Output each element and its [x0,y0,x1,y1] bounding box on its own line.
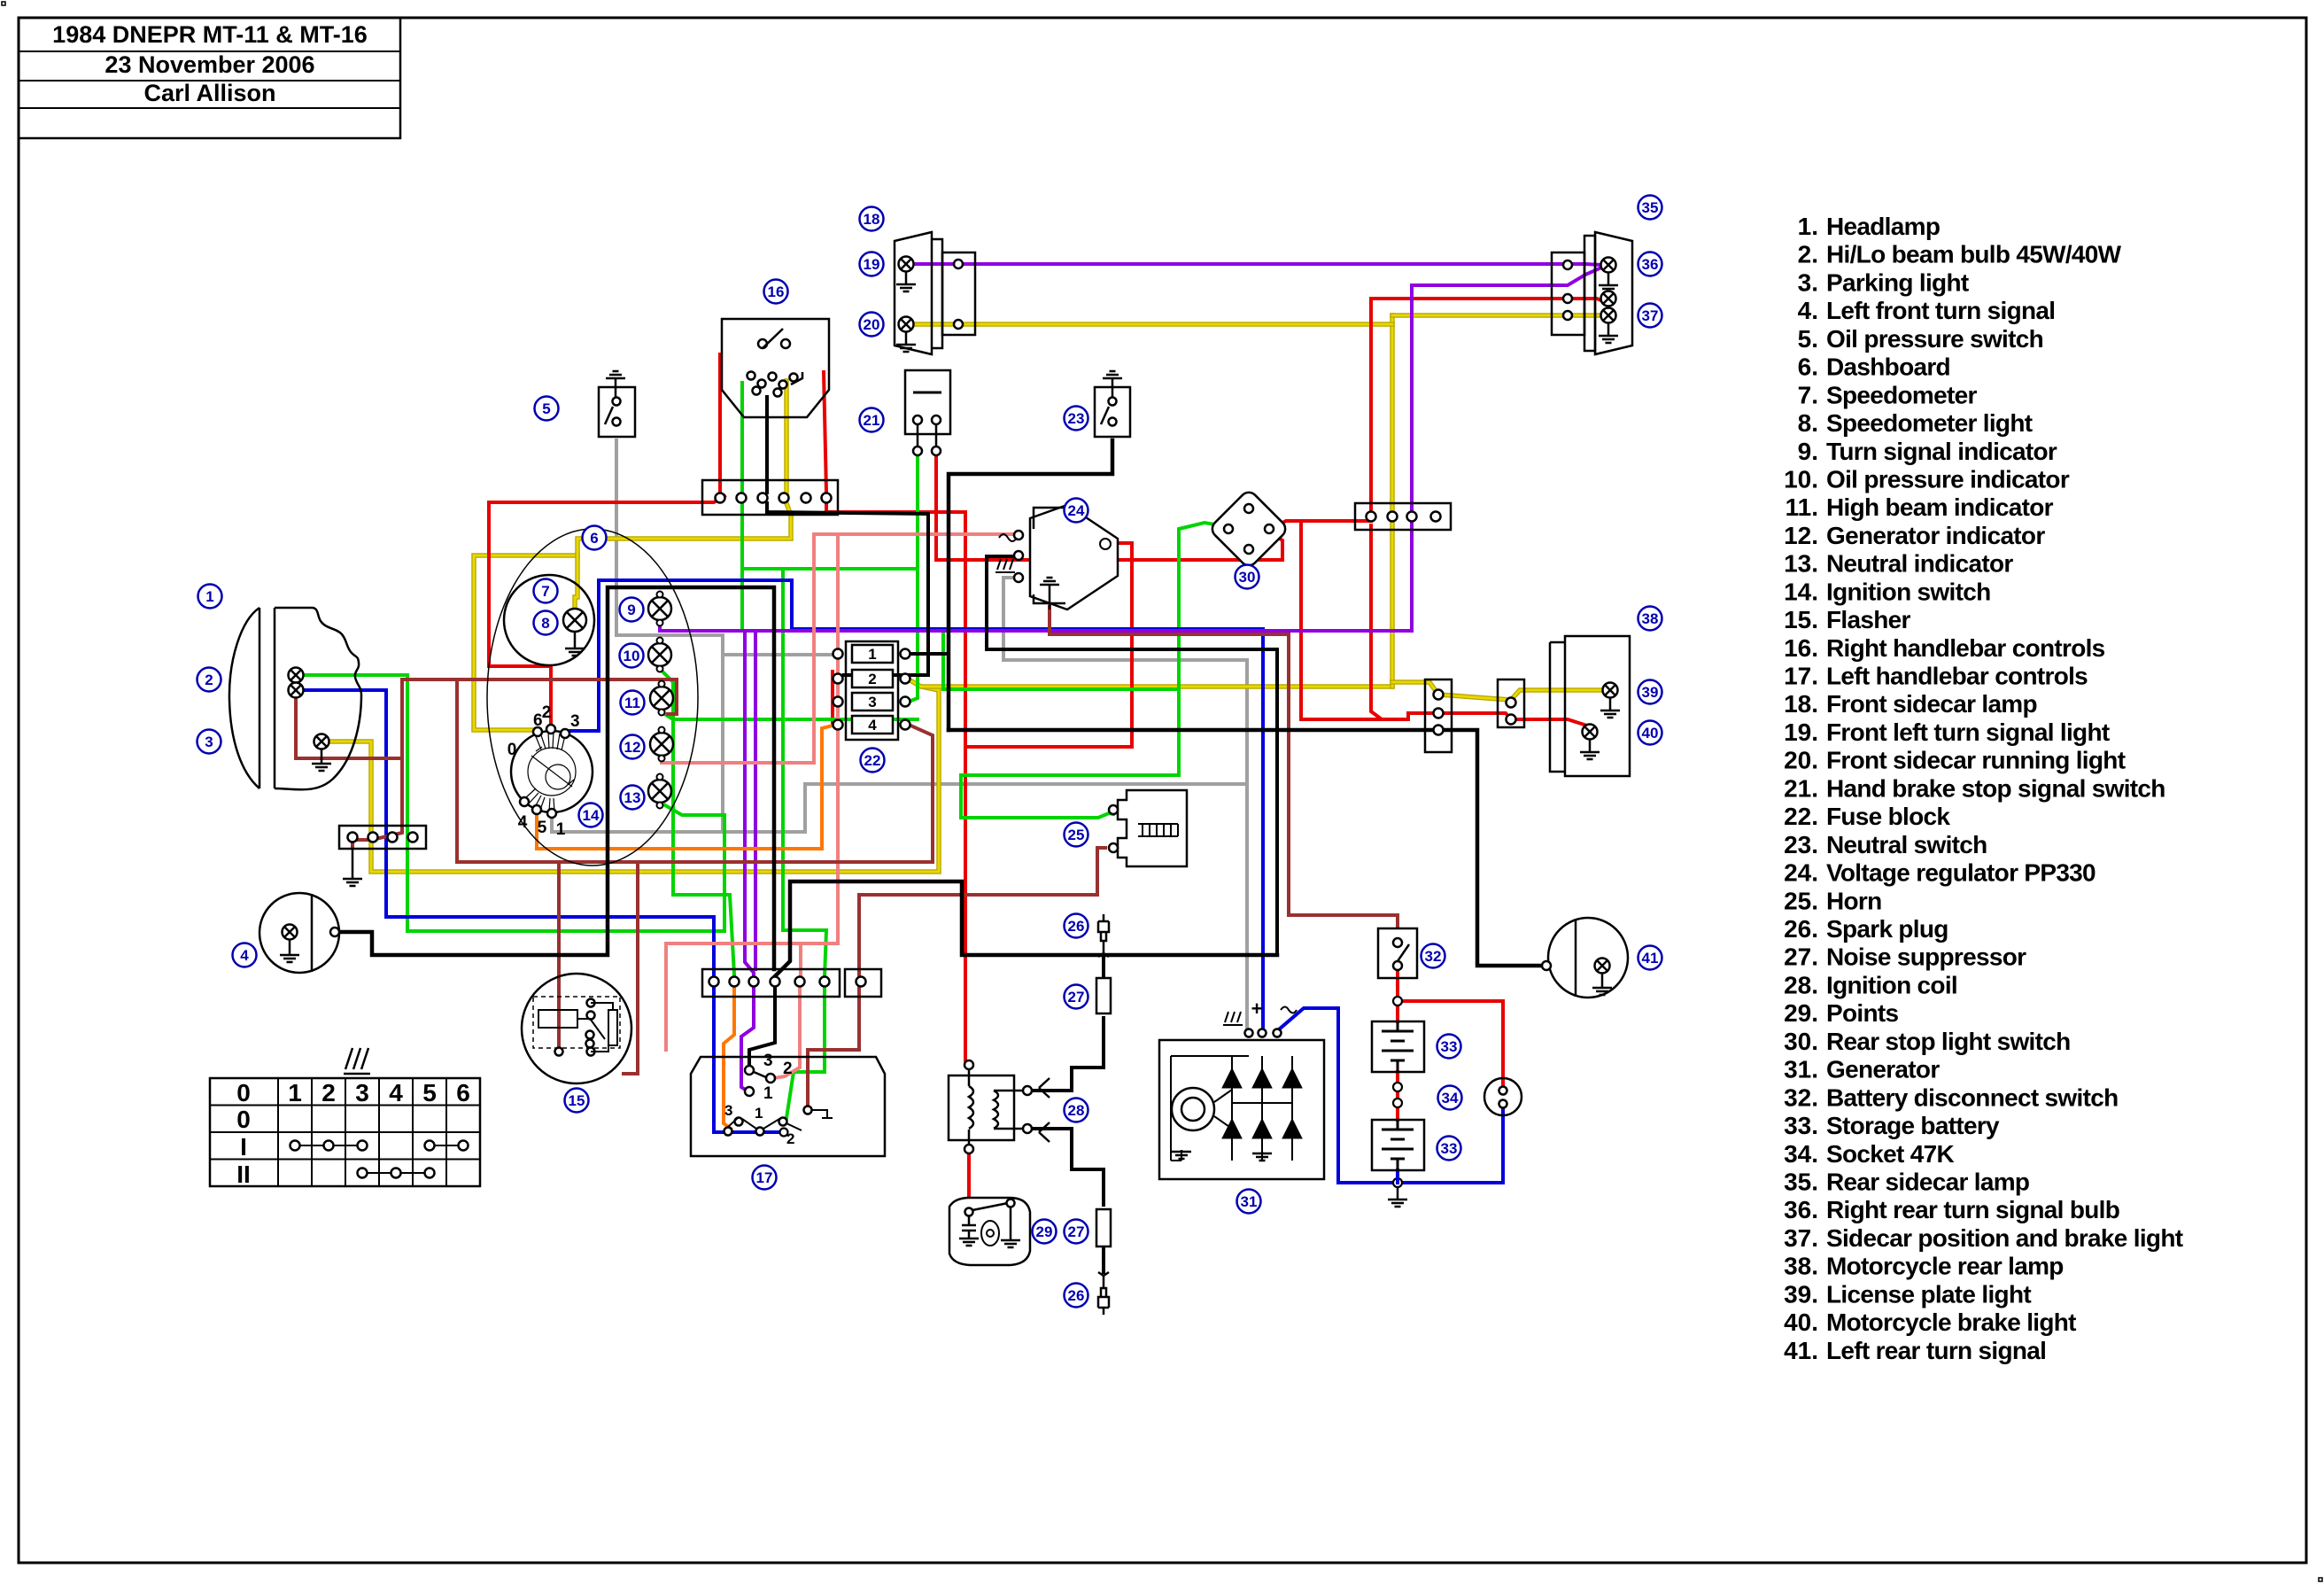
svg-text:0: 0 [236,1106,251,1133]
neutral indicator 13 [648,774,671,809]
svg-text:Noise suppressor: Noise suppressor [1826,943,2026,971]
wire green: 16 to stop switch 30 [742,383,1179,689]
node battery mid1 [1393,1083,1402,1091]
node label 13 [621,786,645,810]
socket 47K 34 [1484,1078,1522,1115]
wire black: suppressor to spark plug upper [1102,957,1105,978]
node label 9 [620,598,644,622]
svg-text:2: 2 [205,672,213,688]
terminal strip (below 16) [702,480,838,515]
wire maroon: to lamp 11 [402,679,677,714]
left front turn signal 4 [260,893,339,973]
flasher 15 [522,974,631,1083]
wire yellow: riser to front/rear sidecar lamps [1390,315,1395,687]
svg-text:19: 19 [864,256,880,273]
speedometer 7 [504,575,594,665]
svg-text:23.: 23. [1784,831,1818,858]
node label 7 [534,579,558,603]
svg-text:4: 4 [868,717,877,734]
ground (parking light) [312,758,331,771]
wire yellow: front sidecar running light 20 [914,322,1392,327]
svg-text:25.: 25. [1784,887,1818,914]
node label 26 lower [1065,1284,1088,1308]
sidecar position and brake light 37 [1601,291,1616,307]
svg-text:12: 12 [624,739,641,756]
svg-text:Oil pressure switch: Oil pressure switch [1826,325,2043,353]
ground (regulator) [1049,586,1051,610]
ground (points capacitor) [959,1237,979,1246]
svg-text:3: 3 [724,1102,732,1119]
svg-text:15: 15 [569,1092,585,1109]
connector (rear lamp 3-hole) [1425,679,1452,752]
svg-text:26: 26 [1068,918,1085,935]
wire yellow: 16 internal [784,381,789,493]
node label 38 [1638,607,1662,631]
wire maroon: horn to strip to 17 [859,848,1105,977]
wire blue: battery to node [1396,1170,1399,1183]
svg-text:Front sidecar running light: Front sidecar running light [1826,747,2126,774]
generator 31 [1159,1040,1324,1179]
svg-text:30: 30 [1239,569,1256,586]
svg-text:1: 1 [763,1084,773,1103]
svg-text:22.: 22. [1784,803,1818,830]
node label 33 [1437,1035,1461,1059]
right rear turn signal bulb 36 [1601,258,1616,273]
svg-text:28: 28 [1068,1102,1085,1119]
node label 26 [1065,914,1088,938]
svg-text:39: 39 [1642,684,1659,701]
svg-text:35: 35 [1642,199,1659,216]
wire maroon: regulator to battery switch 32 [1050,607,1398,926]
svg-text:Generator: Generator [1826,1056,1940,1083]
node label 23 [1065,407,1088,431]
wire maroon: flasher feed [624,862,638,1074]
svg-text:24.: 24. [1784,859,1818,887]
svg-text:27.: 27. [1784,943,1818,971]
wire blue: ignition t3 to generator + [568,580,1263,1031]
svg-text:Horn: Horn [1826,887,1882,914]
node label 4 [233,943,257,967]
svg-text:23: 23 [1068,410,1085,427]
node label 8 [534,611,558,635]
svg-text:4.: 4. [1798,297,1818,324]
svg-text:0: 0 [236,1079,251,1106]
svg-text:License plate light: License plate light [1826,1280,2031,1308]
svg-text:Right handlebar controls: Right handlebar controls [1826,634,2105,662]
svg-text:Storage battery: Storage battery [1826,1112,2000,1139]
svg-text:1: 1 [288,1079,302,1106]
node label 39 [1638,680,1662,704]
svg-text:Motorcycle brake light: Motorcycle brake light [1826,1308,2076,1336]
speedometer light 8 [563,609,586,632]
svg-text:18.: 18. [1784,690,1818,718]
front sidecar lamp 18 [895,232,942,354]
svg-text:30.: 30. [1784,1028,1818,1055]
node label 40 [1638,721,1662,745]
node label 3 [198,730,221,754]
node label 19 [860,252,884,276]
svg-text:3: 3 [205,734,213,750]
svg-text:Turn signal indicator: Turn signal indicator [1826,438,2057,465]
node label 34 [1438,1086,1462,1110]
wire yellow: parking light trunk [329,687,939,872]
hand brake stop signal switch 21 [905,370,950,434]
front left turn signal light 19 [899,257,914,272]
svg-text:34: 34 [1442,1090,1459,1106]
svg-text:14: 14 [583,807,600,824]
svg-text:31.: 31. [1784,1056,1818,1083]
wire gray: oil switch 5 trunk [616,440,723,635]
svg-text:39.: 39. [1784,1280,1818,1308]
ignition switch 14 [511,731,593,812]
node label 16 [764,280,788,304]
wire green: hand brake 21 to fuse 3 [909,455,918,702]
wire black: lower suppressor to plug [1102,1246,1105,1272]
svg-text:Right rear turn signal bulb: Right rear turn signal bulb [1826,1196,2119,1223]
svg-text:37: 37 [1642,307,1659,324]
node label 27 [1065,985,1088,1009]
node label 35 [1638,196,1662,220]
node label 12 [621,735,645,759]
ground (generator left) [1181,1150,1182,1161]
svg-text:32: 32 [1425,948,1442,965]
node label 24 [1065,499,1088,523]
node label 36 [1638,252,1662,276]
svg-text:26: 26 [1068,1287,1085,1304]
svg-text:18: 18 [864,211,880,228]
svg-text:20.: 20. [1784,747,1818,774]
node label 17 [753,1166,777,1190]
motorcycle brake light 40 [1583,725,1598,740]
wire black: turn signal 4 loop / dashboard frame [339,587,774,969]
wire black: 16 to fuse 2 [765,397,769,493]
svg-text:Hand brake stop signal switch: Hand brake stop signal switch [1826,774,2165,802]
wire green: lamp 10 to strip hole2 [660,669,734,974]
svg-text:32.: 32. [1784,1083,1818,1111]
node label 6 [583,526,607,550]
oil pressure switch 5 [599,387,635,437]
node label 11 [621,691,645,715]
wire green: below strip to horn button [786,986,825,1118]
svg-text:8.: 8. [1798,409,1818,437]
svg-text:Neutral switch: Neutral switch [1826,831,1987,858]
node label 1 [198,585,222,609]
svg-text:13: 13 [624,789,641,806]
svg-text:29: 29 [1036,1223,1053,1240]
wire red: 16 right to ignition coil [824,372,826,493]
wire orange: ignition t5 trunk [537,725,836,849]
svg-text:Front sidecar lamp: Front sidecar lamp [1826,690,2037,718]
svg-text:27: 27 [1068,989,1085,1006]
svg-text:33.: 33. [1784,1112,1818,1139]
wire yellow: to license plate light 39 [1392,682,1603,700]
wire black: hole4 to 17 [749,986,775,1066]
wire red: regulator to coil feed [967,543,1132,747]
svg-text:1: 1 [556,820,566,839]
wire maroon: flasher coil feed [557,862,561,1047]
node 17 terminal (blue) [780,1129,788,1137]
left handlebar controls 17 [691,1057,885,1156]
terminal strip (center) [702,969,840,997]
svg-text:10.: 10. [1784,465,1818,493]
ground (speedo light) [565,643,585,656]
svg-text:1984 DNEPR MT-11 & MT-16: 1984 DNEPR MT-11 & MT-16 [52,21,368,48]
svg-text:Rear sidecar lamp: Rear sidecar lamp [1826,1168,2029,1195]
wire green: 16 branch to hole6 riser [742,567,918,571]
svg-text:16: 16 [768,283,785,300]
svg-text:2: 2 [542,703,552,722]
dashboard 6 [487,529,698,866]
ground (below strip) [343,849,362,886]
svg-text:20: 20 [864,316,880,333]
horn 25 [1118,790,1187,866]
license plate light 39 [1603,683,1618,698]
wire pink: flasher to strip hole5 [666,943,838,1050]
left rear turn signal 41 [1548,918,1628,998]
headlamp 1 [260,608,275,788]
wire red: rear turn 37 feed [1371,299,1603,301]
svg-text:27: 27 [1068,1223,1085,1240]
terminal strip (right top 4-hole) [1355,503,1451,530]
node battery top [1393,997,1402,1006]
wire black: fuse1 to 23 trunk [909,652,949,656]
wire gray: branch to fuse 1 [723,653,836,656]
svg-text:19.: 19. [1784,718,1818,746]
svg-text:9: 9 [627,602,635,618]
rear sidecar lamp 35 [1595,232,1632,354]
node label 25 [1065,823,1088,847]
svg-text:Carl Allison: Carl Allison [143,80,275,106]
svg-text:3.: 3. [1798,268,1818,296]
svg-text:2: 2 [321,1079,336,1106]
node battery bottom [1393,1178,1402,1187]
wire yellow: 16 strip to speedo bulb 8 [575,503,791,610]
svg-text:14.: 14. [1784,578,1818,605]
terminal strip (center small) [845,969,881,997]
node label 27 lower [1065,1220,1088,1244]
node label 28 [1065,1099,1088,1122]
node label 33 lower [1437,1137,1461,1161]
motorcycle rear lamp 38 [1565,636,1630,776]
svg-text:Left handlebar controls: Left handlebar controls [1826,663,2088,690]
svg-text:31: 31 [1241,1193,1258,1210]
noise suppressor 27 upper [1096,978,1111,1013]
svg-text:Headlamp: Headlamp [1826,213,1940,240]
svg-text:II: II [236,1161,251,1188]
node label 37 [1638,304,1662,328]
svg-text:Left front turn signal: Left front turn signal [1826,297,2055,324]
node label 5 [535,397,559,421]
svg-text:6.: 6. [1798,353,1818,381]
svg-text:23 November 2006: 23 November 2006 [105,51,314,78]
svg-text:Motorcycle rear lamp: Motorcycle rear lamp [1826,1253,2064,1280]
svg-text:2: 2 [783,1060,793,1078]
noise suppressor 27 lower [1096,1209,1111,1246]
wire red: rear riser to brake light 40 [1371,525,1387,719]
hi/lo beam bulb 2 [289,668,304,683]
oil pressure indicator 10 [648,638,671,672]
wire black: regulator t2 riser [987,556,1277,955]
wire yellow: fuse 2 to rear [907,679,1392,687]
wire yellow: sidecar brake light 37 [1392,313,1601,318]
ground (generator bridge) [1261,1138,1263,1152]
node label 30 [1236,565,1259,589]
node label 21 [860,408,884,432]
svg-text:16.: 16. [1784,634,1818,662]
svg-text:21.: 21. [1784,774,1818,802]
rear stop light switch 30 [1209,489,1290,570]
svg-text:12.: 12. [1784,522,1818,549]
node label 32 [1422,944,1445,968]
svg-text:13.: 13. [1784,550,1818,578]
node label 2 [198,668,221,692]
node label 31 [1237,1190,1261,1214]
svg-text:Fuse block: Fuse block [1826,803,1950,830]
svg-text:Points: Points [1826,999,1898,1027]
switch position table [210,1078,480,1186]
svg-text:5: 5 [422,1079,437,1106]
wire black: rear trunk to lamp 41 [949,730,1542,966]
ground (points lever) [1010,1207,1012,1238]
svg-text:Speedometer: Speedometer [1826,381,1977,408]
node label 20 [860,313,884,337]
svg-text:Spark plug: Spark plug [1826,915,1948,943]
svg-text:11.: 11. [1786,493,1818,521]
svg-text:Parking light: Parking light [1826,268,1969,296]
wire blue: headlamp low beam to 17 [304,690,782,1132]
battery disconnect switch 32 [1378,928,1417,978]
node battery mid2 [1393,1099,1402,1107]
svg-text:41.: 41. [1784,1337,1818,1364]
wire red: battery circuit [1396,970,1399,1021]
neutral switch 23 [1095,387,1130,437]
svg-text:Neutral indicator: Neutral indicator [1826,550,2013,578]
wire green: headlamp to lamp 13 [304,675,724,931]
storage battery 33 lower [1372,1120,1424,1170]
svg-text:Oil pressure indicator: Oil pressure indicator [1826,465,2070,493]
node label 18 [860,207,884,231]
generator indicator 12 [650,727,673,762]
svg-text:Ignition coil: Ignition coil [1826,971,1957,998]
svg-text:6: 6 [590,530,598,547]
wire red: hand brake switch 21 to stop switch 30 [936,455,1282,560]
svg-text:35.: 35. [1784,1168,1818,1195]
svg-text:1: 1 [868,646,876,663]
wire pink: lamp 12 to regulator t1 [662,534,1013,763]
svg-text:Generator indicator: Generator indicator [1826,522,2045,549]
page border frame [2,2,5,5]
svg-text:Dashboard: Dashboard [1826,353,1950,381]
svg-text:7.: 7. [1798,381,1818,408]
wire gray: regulator t3 to generator Sh [1003,578,1247,1031]
svg-text:4: 4 [518,813,528,832]
svg-text:5: 5 [538,819,547,837]
svg-text:0: 0 [507,741,517,759]
Sh symbol above table [344,1048,370,1074]
points 29 [949,1198,1030,1265]
svg-text:8: 8 [541,615,549,632]
wire green: lamp 11 branch [662,712,918,719]
wire yellow: ignition t6 to speedo bulb 8 [474,555,577,730]
voltage regulator PP330 24 [1030,505,1118,610]
turn signal indicator 9 [648,592,671,626]
svg-text:1: 1 [755,1105,763,1122]
wire red: fuse left bus [833,672,840,725]
terminal strip (headlamp) [339,826,426,849]
node label 10 [620,644,644,668]
svg-text:10: 10 [624,648,640,664]
svg-text:Speedometer light: Speedometer light [1826,409,2033,437]
svg-text:3: 3 [570,712,580,731]
wire maroon: headlamp bulb to ground strip [296,698,402,758]
svg-text:6: 6 [456,1079,470,1106]
svg-text:17.: 17. [1784,663,1818,690]
svg-text:26.: 26. [1784,915,1818,943]
svg-text:41: 41 [1642,950,1659,967]
wire red: 16 to hole1 / C-loop to ignition t2 [718,354,722,493]
svg-text:Socket 47K: Socket 47K [1826,1140,1954,1168]
svg-text:40: 40 [1642,725,1659,742]
svg-text:Rear stop light switch: Rear stop light switch [1826,1028,2071,1055]
node label 41 [1638,946,1662,970]
svg-text:28.: 28. [1784,971,1818,998]
svg-text:38.: 38. [1784,1253,1818,1280]
svg-text:9.: 9. [1798,438,1818,465]
svg-text:2.: 2. [1798,241,1818,268]
node label 29 [1033,1220,1057,1244]
svg-text:Voltage regulator PP330: Voltage regulator PP330 [1826,859,2095,887]
ignition coil 28 [949,1075,1014,1140]
wire purple: front turn 19 to rear turn 36 [914,264,1601,265]
wire purple: drops to strip hole3 [745,631,754,982]
spark plug 26 lower [1098,1272,1109,1315]
right handlebar controls 16 [722,319,829,417]
svg-text:15.: 15. [1784,606,1818,633]
svg-text:34.: 34. [1784,1140,1818,1168]
svg-text:1.: 1. [1798,213,1818,240]
svg-text:Hi/Lo beam bulb 45W/40W: Hi/Lo beam bulb 45W/40W [1826,241,2122,268]
svg-text:+: + [1251,998,1263,1020]
node label 15 [565,1089,589,1113]
svg-text:Ignition switch: Ignition switch [1826,578,1991,605]
svg-text:1: 1 [205,588,213,605]
node label 22 [861,749,885,773]
spark plug 26 upper [1098,914,1109,957]
wire black: neutral switch 23 trunk [949,440,1112,730]
ground (battery) [1397,1187,1399,1198]
svg-text:Front left turn signal light: Front left turn signal light [1826,718,2110,746]
parking light 3 [314,734,329,749]
svg-text:2: 2 [786,1130,794,1147]
svg-text:38: 38 [1642,610,1659,627]
wire black: box to bundle [775,881,1277,976]
svg-text:Sidecar position and brake lig: Sidecar position and brake light [1826,1224,2183,1252]
svg-text:4: 4 [389,1079,403,1106]
wire red: coil to points [967,1153,971,1207]
svg-text:29.: 29. [1784,999,1818,1027]
title block [19,18,400,138]
wire maroon: lamp11 branch to fuse 4 [457,679,933,862]
svg-text:21: 21 [864,412,880,429]
wire blue: generator ~ to battery/socket [1279,1008,1503,1183]
storage battery 33 upper [1372,1021,1424,1072]
svg-text:25: 25 [1068,827,1085,843]
svg-text:7: 7 [541,583,549,600]
svg-text:3: 3 [763,1052,773,1070]
svg-text:3: 3 [355,1079,369,1106]
svg-text:4: 4 [240,947,249,964]
high beam indicator 11 [650,681,673,716]
